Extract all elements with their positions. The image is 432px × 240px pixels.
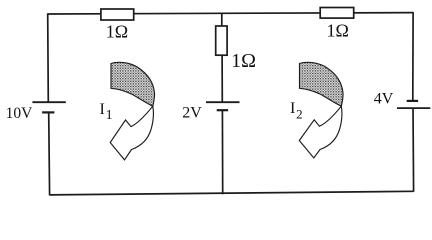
wire middle mid <box>221 55 223 102</box>
battery V3 short plate <box>407 100 418 102</box>
resistor R1 (top-left 1ohm) <box>101 9 134 20</box>
wire right lower <box>412 108 415 192</box>
mesh current I1 arrow tail and head <box>110 106 153 160</box>
resistor R3 (top-right 1ohm) <box>320 8 354 19</box>
wire middle lower <box>221 110 223 194</box>
battery V2 long plate <box>206 101 240 103</box>
mesh current I1 arrow shaded crescent <box>111 62 155 106</box>
svg-text:1Ω: 1Ω <box>106 21 128 41</box>
svg-text:4V: 4V <box>374 91 394 108</box>
mesh current I2 arrow tail and head <box>299 106 342 158</box>
svg-text:2V: 2V <box>182 105 202 122</box>
wire right upper <box>412 12 414 101</box>
battery V1 long plate <box>32 101 65 103</box>
wire bottom <box>50 191 414 195</box>
wire left lower <box>48 112 51 196</box>
battery V2 short plate <box>217 109 228 111</box>
wire top (node A to node B along top) <box>48 13 413 14</box>
svg-text:10V: 10V <box>6 105 34 122</box>
svg-text:1Ω: 1Ω <box>327 20 349 40</box>
battery V1 short plate <box>42 111 54 113</box>
battery V3 long plate <box>397 107 430 109</box>
wire left upper <box>47 13 50 102</box>
svg-text:1Ω: 1Ω <box>231 50 256 72</box>
mesh current I2 arrow shaded crescent <box>300 62 344 106</box>
wire middle upper <box>221 13 223 27</box>
resistor R2 (middle vertical 1ohm) <box>216 26 227 55</box>
